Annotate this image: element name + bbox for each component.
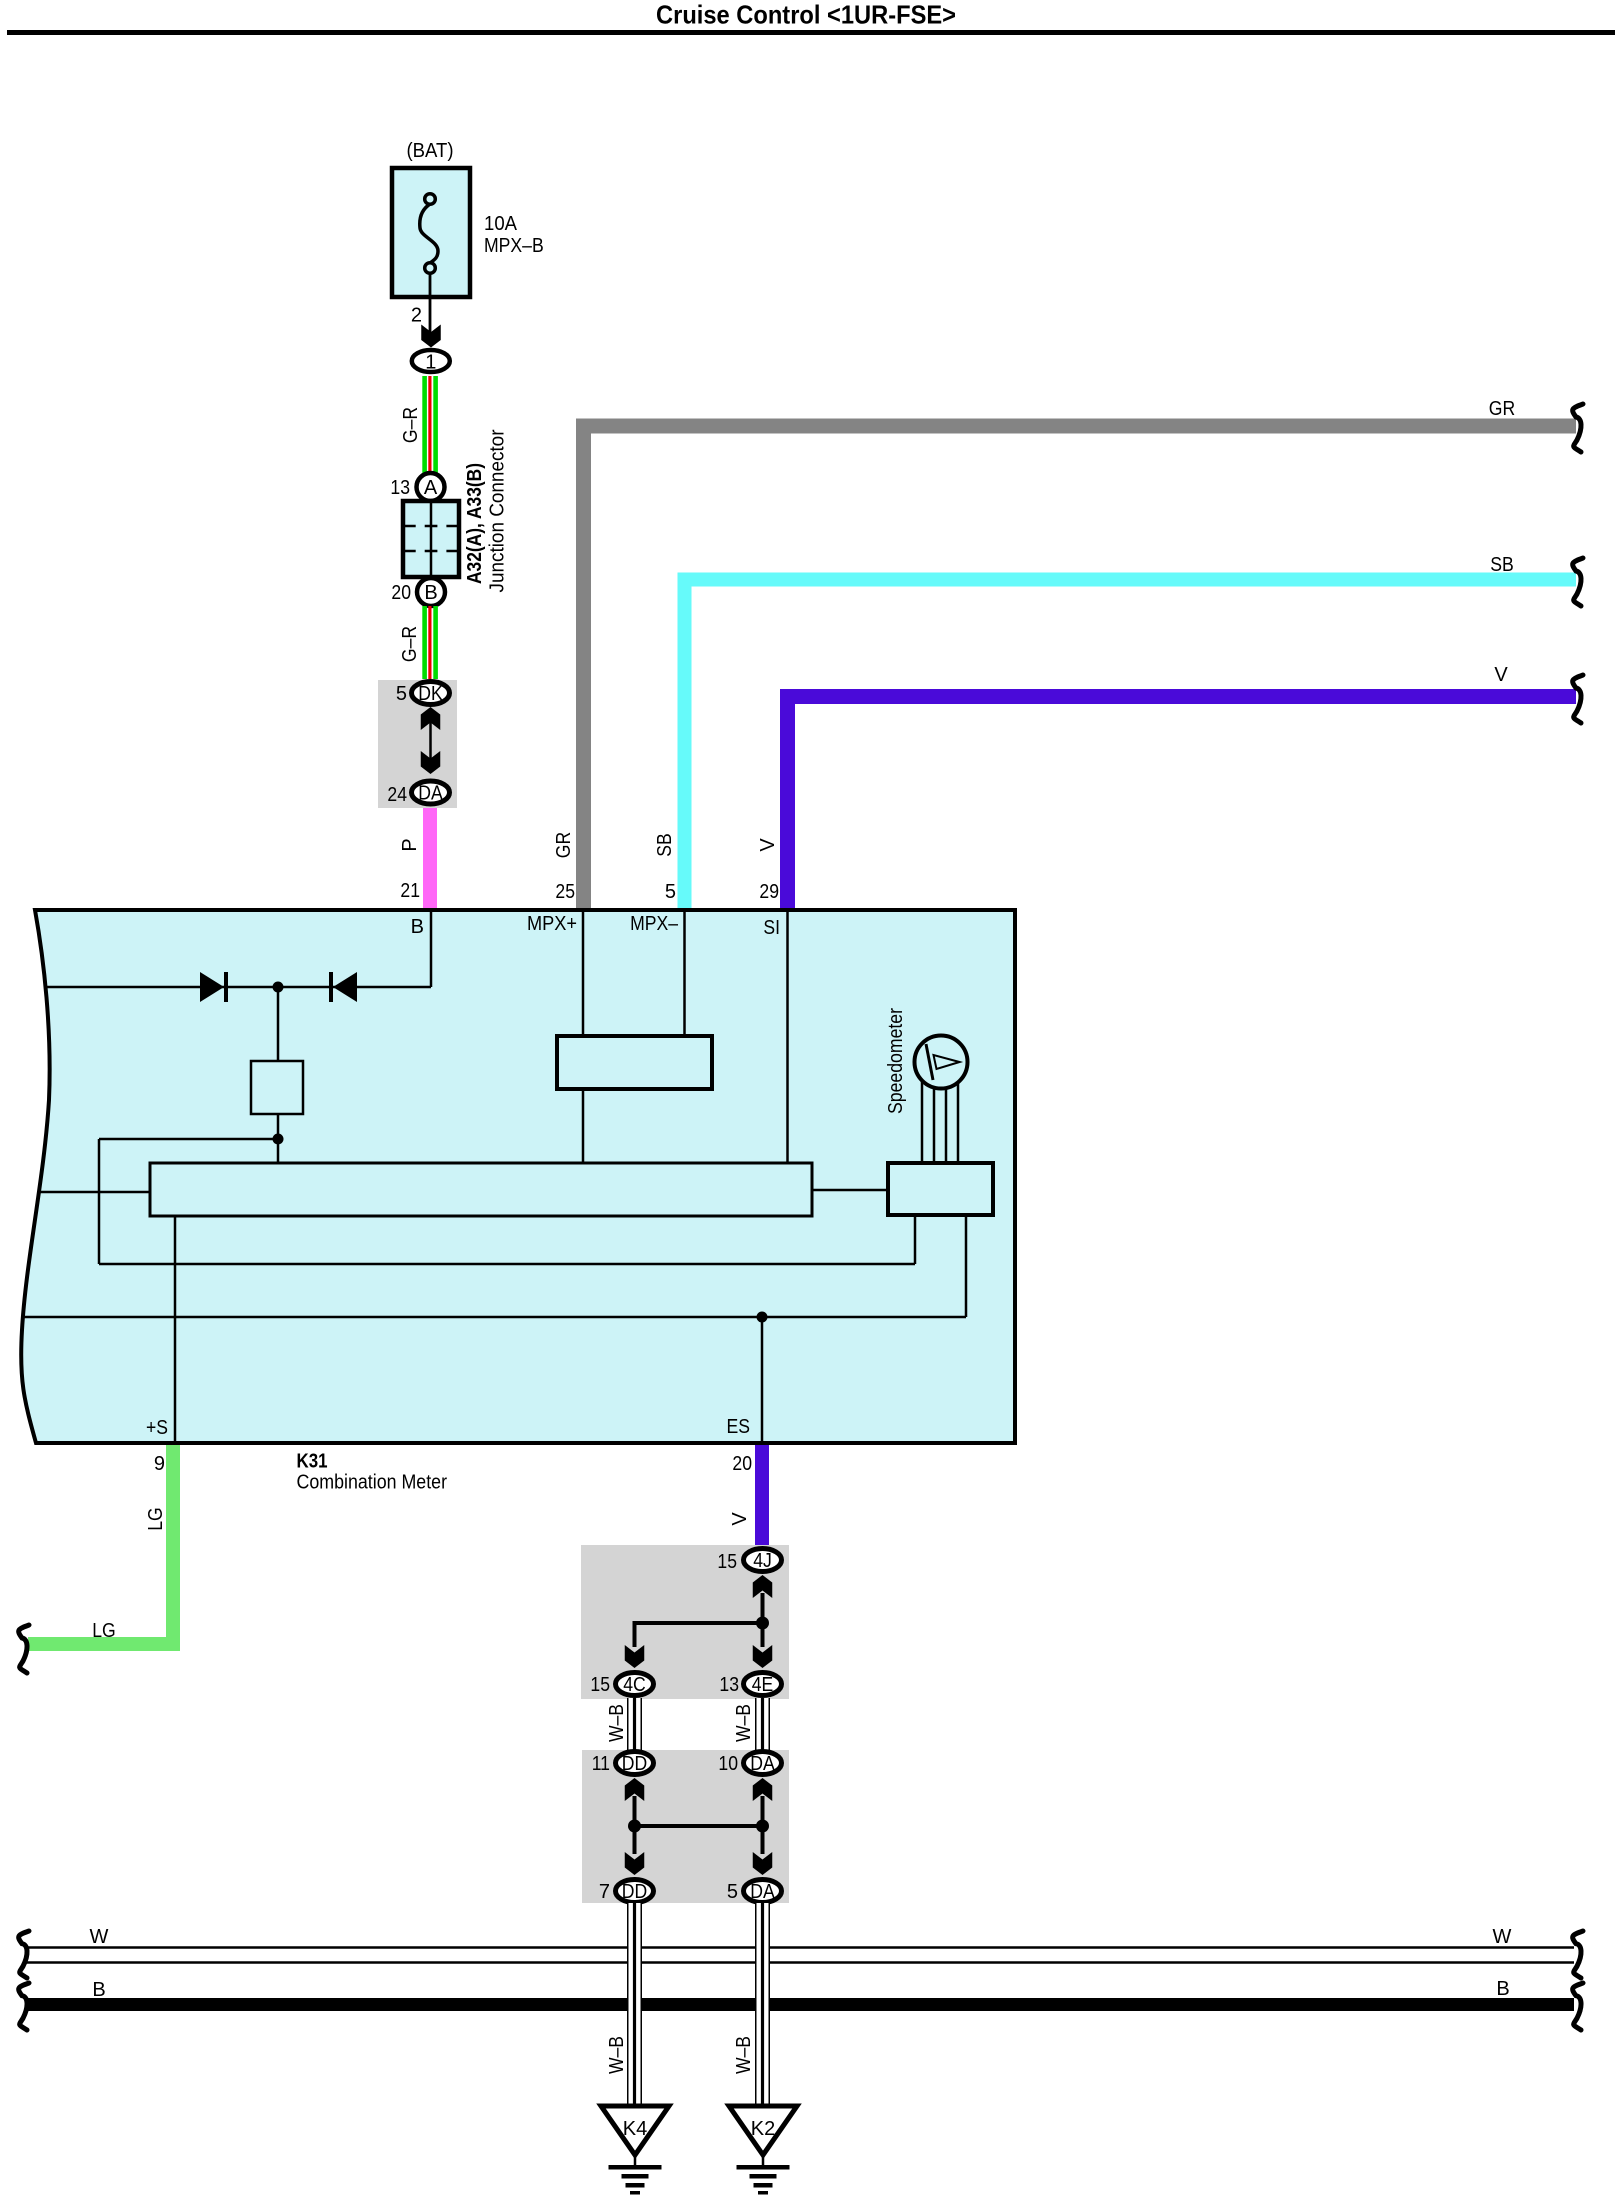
ground point K2 xyxy=(729,2106,797,2155)
rail W break symbol (left) xyxy=(19,1931,29,1978)
wire node to bus xyxy=(277,1139,280,1163)
wire G-R segment 1 xyxy=(422,376,438,474)
svg-text:G–R: G–R xyxy=(399,626,421,662)
node ES junction xyxy=(757,1312,768,1323)
svg-text:4J: 4J xyxy=(753,1550,772,1572)
ground rail B label (left) xyxy=(92,1979,105,2001)
svg-text:LG: LG xyxy=(92,1620,116,1642)
meter name label K31 xyxy=(297,1451,448,1494)
svg-text:ES: ES xyxy=(727,1416,751,1438)
svg-text:20: 20 xyxy=(732,1453,752,1475)
wire color label W-B (4C) xyxy=(606,1704,628,1742)
wire color label SB (vertical) xyxy=(654,833,676,857)
svg-text:DA: DA xyxy=(750,1881,775,1903)
wire V label (right) xyxy=(1494,664,1508,686)
svg-text:K2: K2 xyxy=(751,2118,775,2140)
wire resistor to node xyxy=(277,1114,280,1139)
svg-text:K31: K31 xyxy=(297,1451,328,1473)
svg-text:V: V xyxy=(757,838,779,852)
svg-text:B: B xyxy=(92,1979,105,2001)
node DD link xyxy=(628,1820,641,1833)
wire W-B (DD to K4) xyxy=(627,1903,642,2106)
svg-text:GR: GR xyxy=(1489,398,1515,420)
svg-text:10A: 10A xyxy=(484,213,518,235)
wire +S lead xyxy=(174,1216,177,1443)
wire V (ES) xyxy=(755,1445,769,1547)
wire diode junction to resistor xyxy=(277,987,280,1061)
pin 13 label (4E) xyxy=(719,1674,739,1696)
wire P xyxy=(423,808,437,909)
arrow into 4C xyxy=(625,1621,645,1668)
connector DA (5) xyxy=(744,1880,782,1904)
wire color label W-B (K4) xyxy=(606,2036,628,2074)
resistor (internal) xyxy=(251,1061,303,1114)
pin 15 label (4J) xyxy=(717,1551,737,1573)
svg-text:B: B xyxy=(424,582,437,604)
svg-text:2: 2 xyxy=(411,305,422,327)
pin 24 label xyxy=(387,784,407,806)
arrow from DA xyxy=(753,1778,773,1826)
arrow into DA (5) xyxy=(753,1826,773,1875)
pin 25 label xyxy=(555,881,575,903)
internal wire left stub xyxy=(40,1191,150,1194)
svg-text:A: A xyxy=(424,477,438,499)
rail B break symbol (left) xyxy=(19,1983,29,2030)
svg-text:MPX–B: MPX–B xyxy=(484,235,544,257)
wire V break symbol xyxy=(1573,675,1583,723)
svg-text:4E: 4E xyxy=(752,1674,774,1696)
svg-text:4C: 4C xyxy=(623,1674,646,1696)
connector 4E xyxy=(744,1673,782,1697)
rail B break symbol (right) xyxy=(1573,1983,1583,2030)
node DA link xyxy=(756,1820,769,1833)
svg-text:5: 5 xyxy=(665,881,676,903)
svg-text:SI: SI xyxy=(763,917,780,939)
speedometer driver block xyxy=(888,1163,993,1215)
svg-text:W–B: W–B xyxy=(606,2036,628,2074)
fuse value label 10A / MPX-B xyxy=(484,213,544,257)
arrow into DD (7) xyxy=(625,1826,645,1875)
wire color label G-R (lower) xyxy=(399,626,421,662)
meter pin +S label xyxy=(146,1417,168,1439)
svg-text:15: 15 xyxy=(717,1551,737,1573)
internal wire ES row xyxy=(24,1215,967,1318)
pin 20 label xyxy=(732,1453,752,1475)
svg-text:SB: SB xyxy=(654,833,676,857)
svg-text:25: 25 xyxy=(555,881,575,903)
wire transceiver to bus xyxy=(582,1089,585,1163)
junction connector A32(A) A33(B) block xyxy=(403,501,459,577)
speedometer gauge xyxy=(915,1036,968,1089)
meter pin B label xyxy=(411,916,424,938)
svg-text:11: 11 xyxy=(592,1753,610,1775)
wire LG xyxy=(28,1445,173,1644)
svg-text:+S: +S xyxy=(146,1417,168,1439)
ground rail B label (right) xyxy=(1496,1978,1509,2000)
internal wire diode row xyxy=(47,986,431,989)
pin 10 label (DA) xyxy=(718,1753,738,1775)
arrow into 4E xyxy=(753,1623,773,1668)
svg-text:7: 7 xyxy=(599,1881,610,1903)
svg-text:B: B xyxy=(411,916,424,938)
svg-text:DD: DD xyxy=(622,1881,647,1903)
svg-text:K4: K4 xyxy=(623,2118,647,2140)
title rule xyxy=(7,30,1615,35)
wire LG label (left) xyxy=(92,1620,116,1642)
svg-text:GR: GR xyxy=(553,832,575,858)
arrow into connector 1 xyxy=(421,325,441,348)
junction connector pin B xyxy=(417,578,445,606)
arrow from 4J xyxy=(753,1575,773,1623)
svg-text:Junction Connector: Junction Connector xyxy=(487,429,509,592)
connector 4C xyxy=(616,1673,654,1697)
svg-text:P: P xyxy=(399,838,421,851)
wire W-B (4C to DD) xyxy=(627,1698,642,1751)
wire GR label (right) xyxy=(1489,398,1515,420)
connector block DD-DA xyxy=(582,1750,789,1903)
diode D2 xyxy=(329,972,357,1002)
junction connector pin A xyxy=(417,473,445,501)
wire 4J split horizontal xyxy=(633,1621,763,1625)
svg-text:W: W xyxy=(90,1926,109,1948)
pin 7 label (DD) xyxy=(599,1881,610,1903)
wire color label GR (vertical) xyxy=(553,832,575,858)
wire bus to speedometer driver xyxy=(812,1189,888,1192)
speedometer connection lines xyxy=(921,1062,960,1163)
internal wire left loop xyxy=(98,1138,917,1266)
ground symbol K2 xyxy=(737,2155,790,2195)
svg-text:W–B: W–B xyxy=(606,1704,628,1742)
svg-text:Speedometer: Speedometer xyxy=(885,1008,907,1114)
svg-text:B: B xyxy=(1496,1978,1509,2000)
svg-text:DK: DK xyxy=(418,683,443,705)
svg-text:24: 24 xyxy=(387,784,407,806)
arrow from DD xyxy=(625,1778,645,1826)
meter pin ES label xyxy=(727,1416,751,1438)
node 4J split xyxy=(756,1617,769,1630)
wire LG break symbol xyxy=(19,1625,29,1673)
wire GR break symbol xyxy=(1573,404,1583,452)
pin 5 label (DA) xyxy=(727,1881,738,1903)
wire ES lead xyxy=(761,1317,764,1443)
wire G-R segment 2 xyxy=(422,606,438,679)
MPX transceiver block xyxy=(557,1036,712,1089)
speedometer label xyxy=(885,1008,907,1114)
arrow pair DK to DA xyxy=(421,707,441,774)
node diode junction xyxy=(273,982,284,993)
pin 13 label xyxy=(390,477,410,499)
meter pin MPX- lead xyxy=(683,910,686,1036)
pin 9 label xyxy=(154,1453,165,1475)
rail W break symbol (right) xyxy=(1573,1931,1583,1978)
pin 29 label xyxy=(759,881,779,903)
wire SB label (right) xyxy=(1490,554,1514,576)
wire color label W-B (K2) xyxy=(733,2036,755,2074)
ground symbol K4 xyxy=(609,2155,662,2195)
pin 5 label (meter) xyxy=(665,881,676,903)
svg-text:W–B: W–B xyxy=(733,1704,755,1742)
wire color label P xyxy=(399,838,421,851)
svg-text:Cruise Control <1UR-FSE>: Cruise Control <1UR-FSE> xyxy=(656,0,956,30)
connector block DK-DA xyxy=(378,680,457,808)
svg-text:DA: DA xyxy=(418,783,443,805)
wire color label V (vertical) xyxy=(757,838,779,852)
svg-text:10: 10 xyxy=(718,1753,738,1775)
svg-text:Combination Meter: Combination Meter xyxy=(297,1472,448,1494)
node resistor output xyxy=(273,1134,284,1145)
connector DD (11) xyxy=(616,1752,654,1776)
svg-text:13: 13 xyxy=(390,477,410,499)
wire SB break symbol xyxy=(1573,558,1583,606)
svg-text:5: 5 xyxy=(727,1881,738,1903)
pin 21 label xyxy=(400,880,420,902)
connector DA (10) xyxy=(744,1752,782,1776)
wire color label LG (vertical) xyxy=(145,1507,167,1531)
pin 20 label xyxy=(391,582,411,604)
svg-text:V: V xyxy=(729,1512,751,1526)
fuse F symbol xyxy=(420,194,438,297)
wire GR xyxy=(584,426,1577,909)
ground rail W label (left) xyxy=(90,1926,109,1948)
wire SB xyxy=(685,580,1577,910)
wire color label G-R (upper) xyxy=(400,407,422,443)
pin 5 label (DK) xyxy=(396,683,407,705)
svg-text:W: W xyxy=(1493,1926,1512,1948)
meter pin MPX+ lead xyxy=(582,910,585,1036)
wire color label V (ES) xyxy=(729,1512,751,1526)
svg-text:G–R: G–R xyxy=(400,407,422,443)
pin 15 label (4C) xyxy=(590,1674,610,1696)
svg-text:SB: SB xyxy=(1490,554,1514,576)
connector DA xyxy=(412,781,450,805)
ground rail B xyxy=(26,1998,1574,2011)
meter pin B lead xyxy=(430,910,433,987)
meter pin SI label xyxy=(763,917,780,939)
ground rail W label (right) xyxy=(1493,1926,1512,1948)
svg-text:MPX+: MPX+ xyxy=(527,913,577,935)
label (BAT) xyxy=(407,140,454,162)
svg-text:15: 15 xyxy=(590,1674,610,1696)
wire fuse pin 2 to connector 1 xyxy=(429,297,432,341)
svg-text:V: V xyxy=(1494,664,1508,686)
pin 2 label xyxy=(411,305,422,327)
svg-text:DA: DA xyxy=(750,1753,775,1775)
svg-text:MPX–: MPX– xyxy=(630,913,679,935)
connector DD (7) xyxy=(616,1880,654,1904)
ground rail W xyxy=(26,1946,1574,1964)
wire color label W-B (4E) xyxy=(733,1704,755,1742)
svg-text:9: 9 xyxy=(154,1453,165,1475)
junction connector name label xyxy=(464,429,509,592)
fuse F 10A MPX-B box xyxy=(392,168,470,297)
logic bus block xyxy=(150,1163,812,1216)
connector 1 xyxy=(412,350,450,374)
svg-text:1: 1 xyxy=(425,352,436,374)
title: Cruise Control <1UR-FSE> xyxy=(656,0,956,30)
svg-text:A32(A), A33(B): A32(A), A33(B) xyxy=(464,463,486,584)
wire V (SI) xyxy=(788,697,1577,910)
svg-text:DD: DD xyxy=(622,1753,647,1775)
svg-text:5: 5 xyxy=(396,683,407,705)
connector DK xyxy=(412,682,450,706)
meter pin SI lead xyxy=(786,910,789,1163)
connector block 4J-4C-4E xyxy=(581,1545,789,1699)
meter pin MPX- label xyxy=(630,913,679,935)
connector 4J xyxy=(744,1549,782,1573)
svg-text:21: 21 xyxy=(400,880,420,902)
pin 11 label (DD) xyxy=(592,1753,610,1775)
svg-text:(BAT): (BAT) xyxy=(407,140,454,162)
svg-text:LG: LG xyxy=(145,1507,167,1531)
combination meter K31 body xyxy=(21,910,1015,1443)
svg-text:20: 20 xyxy=(391,582,411,604)
svg-text:29: 29 xyxy=(759,881,779,903)
meter pin MPX+ label xyxy=(527,913,577,935)
wire W-B (4E to DA) xyxy=(755,1698,770,1751)
svg-text:13: 13 xyxy=(719,1674,739,1696)
svg-text:W–B: W–B xyxy=(733,2036,755,2074)
wire DD-DA link xyxy=(633,1824,763,1828)
wire W-B (DA to K2) xyxy=(755,1903,770,2106)
ground point K4 xyxy=(601,2106,669,2155)
diode D1 xyxy=(200,972,228,1002)
